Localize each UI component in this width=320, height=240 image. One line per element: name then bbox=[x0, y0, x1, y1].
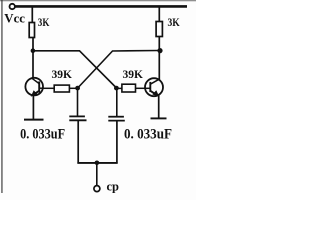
resistor R4 (39K right) bbox=[122, 84, 136, 92]
transistor Q1 (left) bbox=[25, 78, 43, 97]
wire cross-coupling node B to Q1 base bbox=[78, 51, 159, 89]
wire rail to R2 bbox=[158, 7, 160, 23]
wire Q1 emitter bbox=[32, 95, 34, 119]
node C junction dot bbox=[75, 86, 80, 91]
svg-text:39K: 39K bbox=[52, 67, 73, 81]
svg-text:Vcc: Vcc bbox=[4, 11, 25, 26]
svg-text:3K: 3K bbox=[38, 15, 50, 29]
top gray border line bbox=[0, 0, 196, 1]
resistor R2 (3K right) bbox=[156, 22, 162, 37]
transistor Q2 (right) bbox=[145, 78, 163, 96]
svg-text:0. 033uF: 0. 033uF bbox=[20, 127, 65, 143]
wire node D to R4 bbox=[118, 87, 122, 89]
wire R3 to node C bbox=[69, 87, 76, 89]
wire node E to cp terminal bbox=[96, 163, 98, 186]
ground bar right emitter bbox=[151, 117, 167, 119]
terminal cp (open circle) bbox=[94, 186, 100, 192]
svg-text:0. 033uF: 0. 033uF bbox=[124, 127, 172, 143]
capacitor C2 bbox=[108, 117, 125, 121]
resistor R1 (3K left) bbox=[29, 23, 34, 38]
svg-text:3K: 3K bbox=[168, 15, 181, 29]
wire node C to C1 bbox=[77, 89, 79, 116]
capacitor C1 bbox=[69, 116, 86, 120]
svg-text:cp: cp bbox=[107, 179, 120, 193]
wire C1 to output bus bbox=[77, 121, 79, 164]
terminal Vcc (open circle) bbox=[10, 4, 15, 9]
svg-text:39K: 39K bbox=[123, 67, 144, 81]
node A junction dot bbox=[31, 48, 36, 53]
node D junction dot bbox=[114, 86, 119, 91]
wire output bus horizontal bbox=[77, 162, 117, 164]
wire C2 to output bus bbox=[116, 121, 118, 163]
node B junction dot bbox=[157, 48, 162, 53]
wire R2 to Q2 collector bbox=[158, 37, 160, 81]
left border line bbox=[1, 0, 2, 193]
wire R1 to Q1 collector bbox=[32, 38, 34, 79]
wire Vcc rail bbox=[15, 5, 187, 8]
wire Q2 emitter bbox=[158, 96, 160, 118]
node E junction dot bbox=[95, 161, 100, 166]
wire Q1 base to R3 bbox=[43, 87, 55, 89]
ground bar left emitter bbox=[24, 119, 44, 121]
wire R4 to Q2 base bbox=[136, 87, 146, 89]
wire cross-coupling node A to Q2 base bbox=[34, 51, 117, 88]
wire node D to C2 bbox=[116, 89, 118, 116]
resistor R3 (39K left) bbox=[54, 85, 69, 92]
wire rail to R1 bbox=[31, 7, 33, 24]
